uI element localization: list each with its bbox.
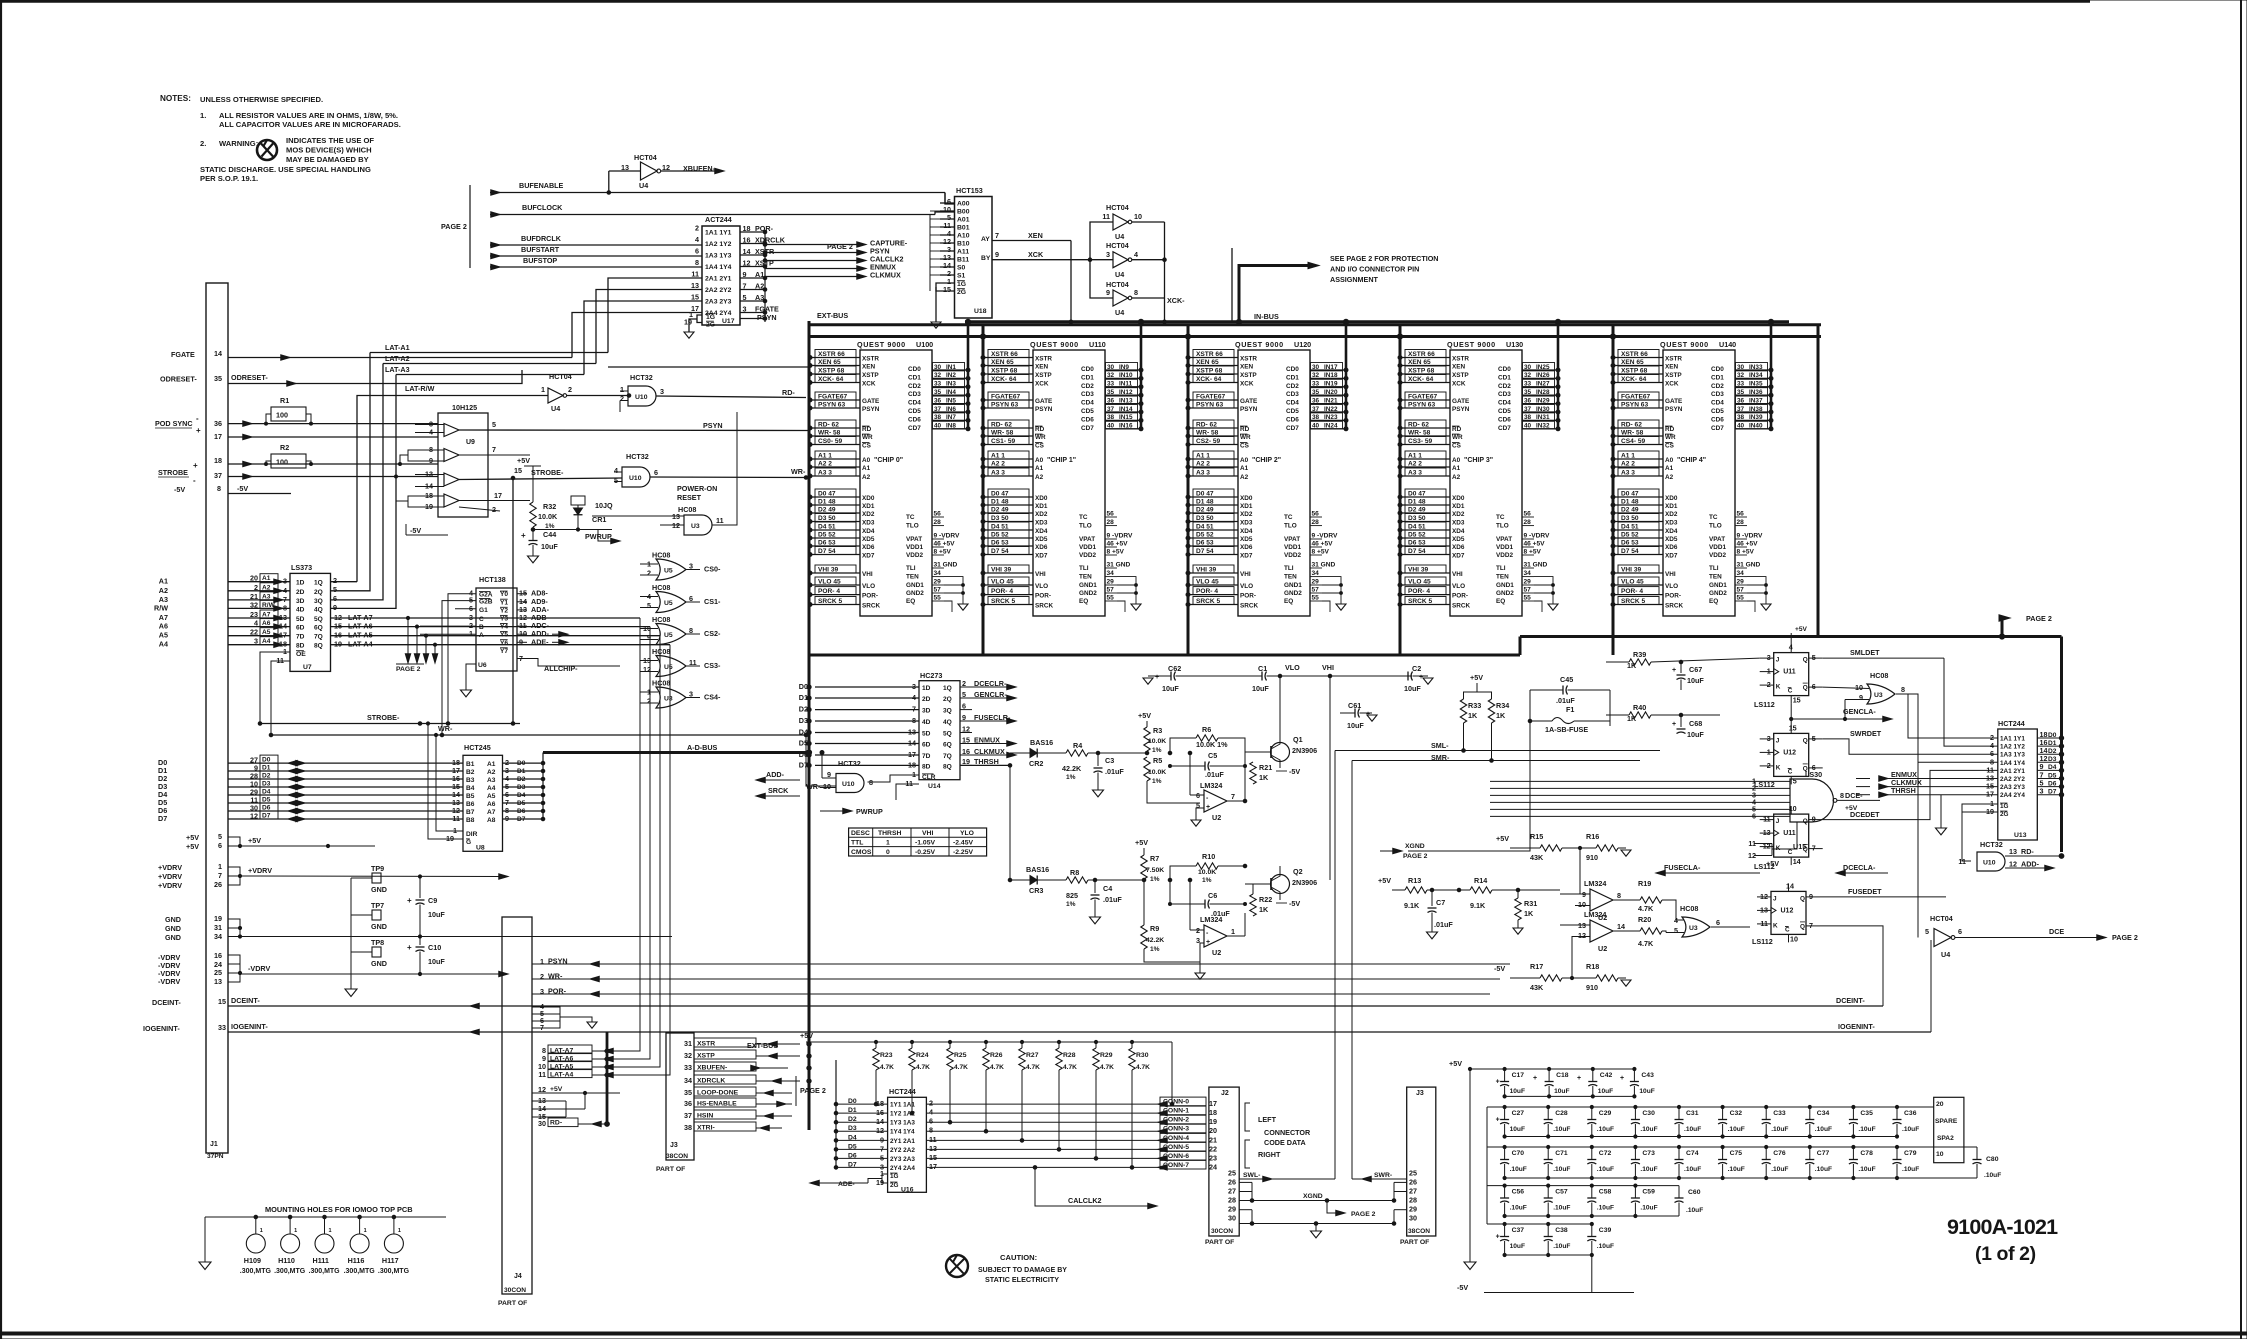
svg-text:IN18: IN18 [1324,372,1338,379]
svg-text:2: 2 [492,505,496,514]
svg-text:D2 49: D2 49 [991,507,1009,514]
svg-text:BUFENABLE: BUFENABLE [519,181,564,190]
svg-text:RD-: RD- [2021,847,2034,856]
svg-text:16: 16 [962,747,970,756]
svg-text:C68: C68 [1689,719,1702,728]
svg-text:1G: 1G [890,1173,899,1180]
svg-text:B10: B10 [957,241,970,248]
svg-text:16: 16 [214,951,222,960]
svg-text:CD3: CD3 [1498,391,1511,398]
mounting hole H117 [392,1215,396,1219]
svg-text:A1: A1 [1452,465,1461,472]
svg-text:ALL RESISTOR VALUES ARE IN OHM: ALL RESISTOR VALUES ARE IN OHMS, 1/8W, 5… [219,111,398,120]
svg-text:R34: R34 [1496,701,1509,710]
svg-text:R15: R15 [1530,832,1543,841]
svg-text:XD4: XD4 [1665,528,1678,535]
svg-text:BAS16: BAS16 [1030,738,1053,747]
svg-text:10: 10 [1578,900,1586,909]
svg-text:D3: D3 [2048,756,2057,763]
svg-text:10uF: 10uF [1510,1243,1525,1250]
svg-text:C42: C42 [1600,1072,1613,1079]
svg-text:PSYN: PSYN [1240,406,1258,413]
svg-text:C10: C10 [428,943,441,952]
svg-text:31 GND: 31 GND [1524,562,1548,569]
svg-text:C67: C67 [1689,665,1702,674]
svg-text:A01: A01 [957,217,970,224]
svg-text:SRCK: SRCK [1035,603,1053,610]
svg-text:8 +5V: 8 +5V [1312,549,1330,556]
svg-text:29: 29 [1312,579,1320,586]
svg-text:10uF: 10uF [1347,721,1364,730]
svg-text:D0 47: D0 47 [818,491,836,498]
svg-text:B4: B4 [466,785,475,792]
svg-text:3Q: 3Q [314,598,323,605]
svg-text:2A2 2Y2: 2A2 2Y2 [705,287,732,294]
svg-text:D7: D7 [2048,789,2057,796]
svg-text:GND2: GND2 [1496,590,1514,597]
svg-text:A2: A2 [1240,474,1249,481]
svg-text:2Y3 2A3: 2Y3 2A3 [890,1156,915,1163]
svg-text:4Q: 4Q [314,606,323,613]
svg-text:XEN: XEN [862,364,876,371]
svg-text:4.7K: 4.7K [990,1064,1004,1071]
svg-text:31 GND: 31 GND [1312,562,1336,569]
svg-text:CONN-2: CONN-2 [1163,1117,1189,1124]
svg-text:IN7: IN7 [946,414,956,421]
svg-text:2G: 2G [706,322,715,329]
svg-text:D0: D0 [2048,732,2057,739]
svg-text:10uF: 10uF [1510,1088,1525,1095]
svg-text:36: 36 [934,397,942,404]
svg-text:U140: U140 [1719,340,1736,349]
svg-text:+5V: +5V [186,833,199,842]
svg-text:SWRDET: SWRDET [1850,729,1882,738]
svg-text:POR- 4: POR- 4 [1621,588,1643,595]
svg-text:K: K [1776,684,1781,691]
wire PAGE 2 arrow right bus [2001,618,2004,637]
svg-text:15: 15 [943,285,951,294]
svg-text:ADE-: ADE- [531,637,549,646]
ground U6 [466,664,476,690]
svg-text:XSTR: XSTR [862,356,879,363]
svg-text:1: 1 [620,385,624,394]
svg-text:C44: C44 [543,530,556,539]
svg-text:J: J [1776,737,1780,744]
svg-text:GATE: GATE [1035,398,1053,405]
wire IN bus tap chip 1 [1140,322,1143,429]
svg-text:B00: B00 [957,209,970,216]
svg-text:SRCK 5: SRCK 5 [818,598,843,605]
svg-text:5: 5 [333,585,337,594]
svg-text:C: C [1788,768,1793,775]
svg-text:U13: U13 [2014,832,2027,839]
svg-text:56: 56 [1737,511,1745,518]
svg-text:3Q: 3Q [943,708,952,715]
svg-text:9100A-1021: 9100A-1021 [1947,1215,2058,1239]
svg-text:WR: WR [1665,434,1676,441]
svg-text:XD7: XD7 [1240,553,1253,560]
svg-text:30: 30 [934,364,942,371]
svg-text:XD7: XD7 [1665,553,1678,560]
svg-text:4.7K: 4.7K [916,1064,930,1071]
svg-text:37: 37 [934,406,942,413]
svg-text:U3: U3 [691,523,700,530]
svg-text:A0: A0 [862,457,871,464]
svg-text:A3: A3 [262,593,271,600]
svg-text:CD5: CD5 [1081,408,1094,415]
svg-text:WR: WR [1452,434,1463,441]
svg-text:5: 5 [962,690,966,699]
svg-text:R22: R22 [1259,895,1272,904]
svg-text:CD6: CD6 [1498,416,1511,423]
svg-text:Q: Q [1803,685,1808,692]
svg-text:D2 49: D2 49 [1196,507,1214,514]
ground U2a [1196,808,1204,820]
svg-text:.10uF: .10uF [1902,1126,1919,1133]
svg-text:D5 52: D5 52 [1408,532,1426,539]
svg-text:30: 30 [538,1119,546,1128]
svg-text:AY: AY [981,236,990,243]
svg-text:XSTR: XSTR [1665,356,1682,363]
svg-text:XDRCLK: XDRCLK [697,1078,725,1085]
svg-text:XBUFEN-: XBUFEN- [697,1065,727,1072]
svg-text:38: 38 [934,414,942,421]
svg-text:CONN-7: CONN-7 [1163,1162,1189,1169]
wire PWRUP arrow mid [820,810,844,812]
svg-text:8: 8 [1134,288,1138,297]
svg-text:D2: D2 [517,776,526,783]
svg-text:2: 2 [254,583,258,592]
svg-text:B11: B11 [957,257,969,264]
svg-text:32: 32 [684,1051,692,1060]
svg-text:WR- 58: WR- 58 [818,430,841,437]
svg-text:D1 48: D1 48 [1408,499,1426,506]
svg-text:22: 22 [1209,1144,1217,1153]
svg-text:CS1- 59: CS1- 59 [991,438,1016,445]
svg-text:+: + [193,461,198,470]
svg-text:XD0: XD0 [1665,495,1678,502]
svg-text:17: 17 [929,1162,937,1171]
mounting hole H110 [288,1215,292,1219]
svg-text:D0 47: D0 47 [991,491,1009,498]
svg-text:6: 6 [929,1117,933,1126]
svg-text:VHI: VHI [1240,571,1251,578]
svg-text:8 +5V: 8 +5V [1524,549,1542,556]
svg-text:6: 6 [962,701,966,710]
svg-text:SRCK: SRCK [1240,603,1258,610]
svg-text:U3: U3 [1874,692,1883,699]
svg-text:D4 51: D4 51 [1408,524,1426,531]
svg-text:IN2: IN2 [946,372,956,379]
svg-text:CONNECTOR: CONNECTOR [1264,1128,1311,1137]
svg-text:WR- 58: WR- 58 [1621,430,1644,437]
svg-text:28: 28 [1524,519,1532,526]
svg-text:POR-: POR- [862,593,878,600]
svg-text:10uF: 10uF [1598,1088,1613,1095]
svg-text:9 -VDRV: 9 -VDRV [1524,533,1550,540]
wires J3 pins 26-27 tie [1394,1181,1407,1183]
svg-text:10uF: 10uF [541,542,558,551]
svg-text:A0: A0 [1452,457,1461,464]
svg-text:CD4: CD4 [1711,400,1724,407]
svg-text:XCK-: XCK- [1167,296,1185,305]
svg-text:1G: 1G [2000,803,2009,810]
svg-text:XSTP: XSTP [1665,372,1682,379]
svg-text:8: 8 [1840,791,1844,800]
svg-text:1A3 1Y3: 1A3 1Y3 [2000,752,2025,759]
svg-text:R32: R32 [543,502,556,511]
svg-text:4.7K: 4.7K [1638,939,1654,948]
svg-text:C56: C56 [1512,1189,1525,1196]
svg-text:46 +5V: 46 +5V [1107,541,1129,548]
ground U2b [1200,943,1204,962]
svg-text:37: 37 [1107,406,1115,413]
svg-text:MAY BE DAMAGED BY: MAY BE DAMAGED BY [286,155,369,164]
wire U7 OE/clk inputs [260,652,290,724]
svg-text:D6 53: D6 53 [1196,540,1214,547]
svg-text:36: 36 [214,419,222,428]
svg-text:VHI 39: VHI 39 [1408,567,1428,574]
svg-text:CD6: CD6 [1286,416,1299,423]
IC U140 QUEST 9000 CHIP 4 [1611,340,1773,616]
svg-text:.10uF: .10uF [1553,1243,1570,1250]
svg-text:34: 34 [684,1076,692,1085]
svg-text:19: 19 [214,914,222,923]
svg-text:.10uF: .10uF [1597,1166,1614,1173]
svg-text:32: 32 [250,600,258,609]
svg-text:TLI: TLI [1709,565,1719,572]
svg-text:910: 910 [1586,853,1598,862]
svg-text:10: 10 [1789,804,1797,813]
svg-text:ALLCHIP-: ALLCHIP- [544,664,578,673]
svg-text:PART OF: PART OF [1400,1239,1429,1246]
svg-text:Q: Q [1800,895,1805,902]
svg-text:35: 35 [1107,389,1115,396]
svg-text:13: 13 [2009,847,2017,856]
svg-text:.300,MTG: .300,MTG [309,1268,341,1275]
svg-text:C43: C43 [1641,1072,1654,1079]
resistor R5 10.0K 1% [1144,757,1150,781]
svg-text:ADD-: ADD- [2021,860,2040,869]
svg-text:CS4- 59: CS4- 59 [1621,438,1646,445]
svg-text:.10uF: .10uF [1553,1205,1570,1212]
svg-text:28: 28 [1312,519,1320,526]
svg-text:ACT244: ACT244 [705,215,732,224]
svg-text:ASSIGNMENT: ASSIGNMENT [1330,275,1379,284]
svg-text:XD1: XD1 [862,503,875,510]
svg-text:U120: U120 [1294,340,1311,349]
svg-text:C80: C80 [1986,1156,1999,1163]
svg-text:U10: U10 [842,781,855,788]
svg-text:C29: C29 [1599,1110,1612,1117]
svg-text:46 +5V: 46 +5V [1524,541,1546,548]
svg-text:37PN: 37PN [207,1153,224,1160]
svg-text:DCE: DCE [2049,927,2064,936]
svg-text:XEN: XEN [1665,364,1679,371]
svg-text:1: 1 [541,385,545,394]
svg-text:TEN: TEN [906,574,919,581]
svg-text:Y4: Y4 [500,624,508,631]
svg-text:TLO: TLO [1284,523,1297,530]
svg-text:4.7K: 4.7K [1026,1064,1040,1071]
svg-text:STROBE-: STROBE- [531,468,564,477]
svg-text:D1 48: D1 48 [818,499,836,506]
svg-text:D7 54: D7 54 [1621,548,1639,555]
svg-text:BUFSTART: BUFSTART [521,245,560,254]
svg-text:CLKMUX: CLKMUX [870,271,901,280]
svg-text:.01uF: .01uF [1205,770,1224,779]
svg-text:8: 8 [695,258,699,267]
svg-text:SPARE: SPARE [1935,1118,1958,1125]
svg-text:H117: H117 [382,1256,399,1265]
svg-text:XEN 65: XEN 65 [1408,359,1431,366]
svg-text:CR2: CR2 [1029,759,1043,768]
bus vertical near J4 [606,1032,609,1124]
svg-text:Q: Q [1803,737,1808,744]
svg-text:XD6: XD6 [1240,544,1253,551]
svg-text:VHI: VHI [922,830,933,837]
svg-text:XSTR 66: XSTR 66 [1621,351,1648,358]
svg-text:HCT153: HCT153 [956,186,983,195]
svg-text:C33: C33 [1773,1110,1786,1117]
svg-text:VLO 45: VLO 45 [1408,579,1431,586]
svg-text:U4: U4 [1115,270,1124,279]
svg-text:CD4: CD4 [1286,400,1299,407]
svg-text:IN28: IN28 [1536,389,1550,396]
svg-text:HCT32: HCT32 [626,452,649,461]
svg-text:HCT04: HCT04 [1106,203,1129,212]
svg-text:IN1: IN1 [946,364,956,371]
svg-text:-2.25V: -2.25V [953,849,973,856]
svg-text:4.7K: 4.7K [1100,1064,1114,1071]
svg-text:D7 54: D7 54 [1408,548,1426,555]
svg-text:A-D-BUS: A-D-BUS [687,743,718,752]
svg-text:XSTR 66: XSTR 66 [1196,351,1223,358]
svg-text:1: 1 [886,840,890,847]
svg-text:2A4 2Y4: 2A4 2Y4 [2000,792,2025,799]
svg-text:36: 36 [684,1099,692,1108]
svg-text:C9: C9 [428,896,437,905]
svg-text:XSTP: XSTP [1452,372,1469,379]
svg-text:K: K [1773,922,1778,929]
svg-text:XD2: XD2 [1240,511,1253,518]
svg-text:GND: GND [165,933,181,942]
svg-text:56: 56 [934,511,942,518]
svg-text:8: 8 [1901,685,1905,694]
svg-text:XSTP: XSTP [1035,372,1052,379]
svg-text:A4: A4 [487,785,496,792]
svg-text:R14: R14 [1474,876,1487,885]
warning MOS symbol [257,140,277,160]
svg-text:XEN: XEN [1028,231,1043,240]
IC U130 QUEST 9000 CHIP 3 [1398,340,1560,616]
svg-text:STATIC ELECTRICITY: STATIC ELECTRICITY [985,1275,1059,1284]
svg-text:VHI: VHI [1035,571,1046,578]
svg-text:XD3: XD3 [862,520,875,527]
svg-text:4Q: 4Q [943,719,952,726]
svg-text:G2B: G2B [479,599,493,606]
svg-text:"CHIP 0": "CHIP 0" [874,457,903,464]
svg-text:9: 9 [519,637,523,646]
svg-text:+: + [1496,1079,1500,1086]
svg-text:POD SYNC: POD SYNC [155,419,193,428]
svg-text:HCT245: HCT245 [464,743,491,752]
svg-text:CS0-: CS0- [704,565,721,574]
svg-text:.10uF: .10uF [1728,1166,1745,1173]
svg-text:BAS16: BAS16 [1026,865,1049,874]
svg-text:.10uF: .10uF [1553,1166,1570,1173]
svg-text:29: 29 [1228,1205,1236,1214]
svg-text:VDD1: VDD1 [1284,544,1301,551]
svg-text:57: 57 [1107,587,1115,594]
svg-text:SWR-: SWR- [1374,1172,1392,1179]
flip-flop U12 LS112 a [1774,733,1809,776]
svg-text:IN16: IN16 [1119,423,1133,430]
svg-text:DCEINT-: DCEINT- [231,996,260,1005]
svg-text:+5V: +5V [186,842,199,851]
wire XCK- vertical [1164,222,1166,298]
svg-text:17: 17 [214,432,222,441]
svg-text:FGATE67: FGATE67 [1408,394,1438,401]
svg-text:10uF: 10uF [1510,1126,1525,1133]
svg-text:XSTP 68: XSTP 68 [991,368,1018,375]
svg-text:Y6: Y6 [500,640,508,647]
svg-text:U130: U130 [1506,340,1523,349]
svg-text:J: J [1776,818,1780,825]
svg-text:VHI 39: VHI 39 [1621,567,1641,574]
svg-text:33: 33 [1107,381,1115,388]
svg-text:30: 30 [1524,364,1532,371]
svg-text:14: 14 [214,349,222,358]
svg-text:A3 3: A3 3 [991,470,1005,477]
svg-text:5: 5 [218,832,222,841]
svg-text:POR-: POR- [1035,593,1051,600]
svg-text:25: 25 [1409,1169,1417,1178]
svg-text:C74: C74 [1686,1150,1699,1157]
svg-text:28: 28 [1228,1196,1236,1205]
svg-text:WR-: WR- [806,782,821,791]
svg-text:Y3: Y3 [500,616,508,623]
svg-text:YLO: YLO [960,830,974,837]
svg-text:2G: 2G [890,1182,899,1189]
svg-text:A1: A1 [262,575,271,582]
svg-text:RD-: RD- [782,388,795,397]
svg-text:D1 48: D1 48 [991,499,1009,506]
svg-text:1K: 1K [1259,905,1269,914]
svg-text:HC08: HC08 [652,615,670,624]
svg-text:D3 50: D3 50 [1196,515,1214,522]
svg-text:1D: 1D [922,685,931,692]
bus right return vertical [1817,325,1820,637]
svg-text:+5V: +5V [1845,805,1858,812]
svg-text:CS: CS [1665,443,1675,450]
svg-text:"CHIP 2": "CHIP 2" [1252,457,1281,464]
svg-text:D0 47: D0 47 [1408,491,1426,498]
svg-text:FUSECLR-: FUSECLR- [974,713,1011,722]
svg-text:28: 28 [1737,519,1745,526]
capacitor row C17 C18 C42 C43 [1470,1068,1634,1070]
svg-text:R6: R6 [1202,725,1211,734]
wires J3 left arrows [756,1043,800,1045]
svg-text:VLO 45: VLO 45 [1621,579,1644,586]
svg-text:C6: C6 [1208,891,1217,900]
svg-text:POR- 4: POR- 4 [991,588,1013,595]
svg-text:D4 51: D4 51 [1621,524,1639,531]
svg-text:R21: R21 [1259,763,1272,772]
svg-text:8Q: 8Q [943,763,952,770]
svg-text:TC: TC [906,514,915,521]
svg-text:A8: A8 [487,817,496,824]
